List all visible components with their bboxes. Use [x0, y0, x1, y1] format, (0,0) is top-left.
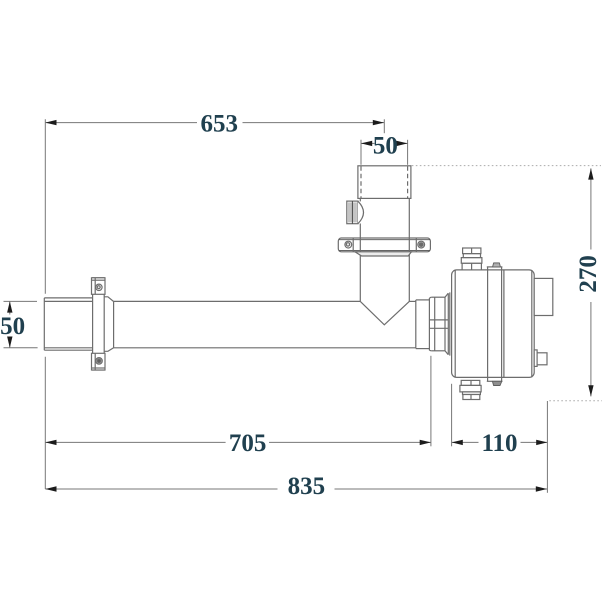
- heater body: [452, 270, 535, 378]
- svg-text:653: 653: [201, 111, 239, 138]
- dim 50 inlet arrows: [7, 301, 12, 347]
- extension line left (x=45): [44, 119, 46, 489]
- dim 270 arrows: [588, 168, 593, 396]
- dim 835 arrows: [45, 486, 547, 491]
- dimension 50 (inlet diameter): [4, 301, 38, 347]
- union nut: [429, 292, 449, 355]
- strap top screw: [493, 262, 501, 267]
- clamp bottom bolt: [96, 358, 103, 365]
- lower right connector: [534, 350, 547, 367]
- clamp band: [92, 278, 106, 370]
- bottom fitting: [460, 380, 481, 399]
- pipe end stub: [416, 300, 430, 349]
- dimension 705: [45, 356, 431, 447]
- body strap: [487, 267, 504, 382]
- svg-text:270: 270: [575, 255, 602, 293]
- dimension 270: [412, 166, 602, 401]
- test port bulge: [358, 201, 364, 223]
- flange hub: [355, 252, 411, 256]
- svg-text:705: 705: [229, 430, 267, 457]
- dimension 110: [452, 384, 548, 493]
- socket taper hub: [105, 297, 114, 352]
- dimension 50 (flue width): [361, 140, 408, 165]
- dimension 835: [45, 488, 547, 490]
- svg-text:110: 110: [481, 430, 517, 457]
- svg-text:835: 835: [288, 473, 326, 500]
- flue tube lines through flange: [360, 238, 409, 252]
- inlet socket: [44, 298, 92, 350]
- top fitting: [461, 248, 482, 270]
- flue collar: [358, 166, 411, 199]
- dim 110 arrows: [452, 440, 548, 445]
- dim 705 arrows: [45, 440, 431, 445]
- upper right box: [534, 278, 553, 315]
- clamp top bolt: [96, 284, 102, 290]
- dim 653 arrows: [45, 120, 384, 125]
- flange right bolt: [418, 241, 425, 248]
- dimension 653: [45, 119, 384, 133]
- horizontal pipe: [114, 300, 416, 349]
- flue collar hidden lines: [361, 166, 408, 198]
- test port cap: [347, 201, 358, 224]
- dim 50 flue arrows: [361, 141, 408, 146]
- strap bottom screw: [492, 381, 501, 385]
- flue flange plate: [338, 238, 430, 252]
- flue tube: [360, 198, 409, 301]
- svg-text:50: 50: [0, 313, 25, 340]
- V deflector: [360, 301, 409, 324]
- flange left bolt: [345, 241, 352, 248]
- svg-text:50: 50: [373, 133, 398, 160]
